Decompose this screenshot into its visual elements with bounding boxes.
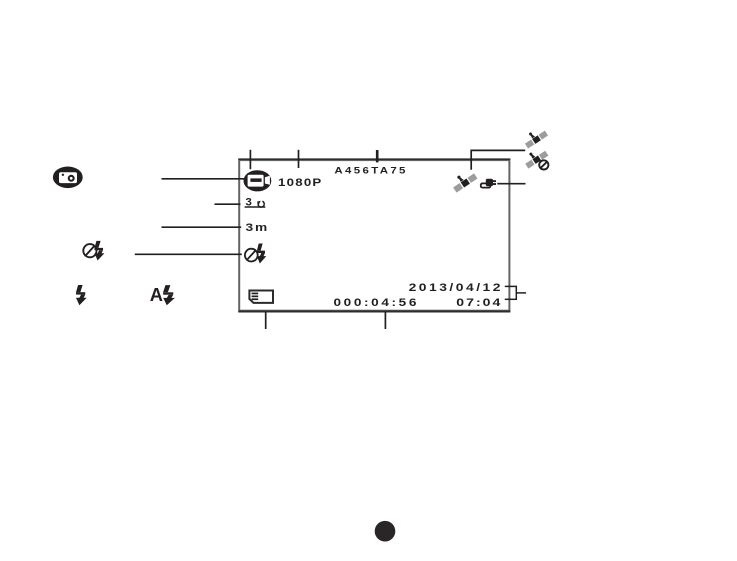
svg-text:1080P: 1080P <box>278 177 323 189</box>
svg-text:2013/04/12: 2013/04/12 <box>409 282 503 294</box>
video camera mode badge (in screen) <box>244 170 272 191</box>
svg-text:A456TA75: A456TA75 <box>334 165 407 175</box>
tick line 2 (top border) <box>298 150 300 168</box>
pointer wire to flash-off icon <box>135 253 242 255</box>
pointer wire below SD card icon <box>265 312 267 329</box>
svg-text:07:04: 07:04 <box>456 297 502 309</box>
pointer wire to distance icon <box>162 226 242 228</box>
flash-on legend icon <box>76 285 87 305</box>
flash-off legend icon (left) <box>83 241 104 261</box>
svg-text:3m: 3m <box>246 222 270 234</box>
LCD screen outline rectangle <box>238 159 510 311</box>
SD card icon <box>249 291 273 303</box>
tick line 3 (top border, camera name) <box>376 150 379 162</box>
pointer wire below time counter <box>384 312 386 329</box>
auto flash legend icon <box>150 284 175 305</box>
flash-off icon (in screen) <box>245 243 266 263</box>
page number dot <box>375 521 396 542</box>
still camera mode badge (legend, left) <box>53 167 83 189</box>
svg-text:A: A <box>150 284 163 305</box>
pointer wire to self-timer icon <box>215 203 241 205</box>
GPS satellite legend icon (top right) <box>521 125 548 149</box>
GPS satellite icon (in screen) <box>449 168 478 193</box>
self-timer 3s icon <box>245 197 266 209</box>
bracket wire for date and clock <box>505 286 526 300</box>
pointer wire from GPS satellite legend down into screen <box>471 150 525 169</box>
pointer wire to camera mode icon <box>162 178 247 180</box>
pointer wire from plug icon to right edge <box>497 183 525 185</box>
tick line 1 (top border, resolution area) <box>249 150 251 169</box>
svg-text:000:04:56: 000:04:56 <box>334 297 420 309</box>
GPS off satellite legend icon <box>522 145 549 170</box>
power plug icon (in screen) <box>481 179 496 188</box>
